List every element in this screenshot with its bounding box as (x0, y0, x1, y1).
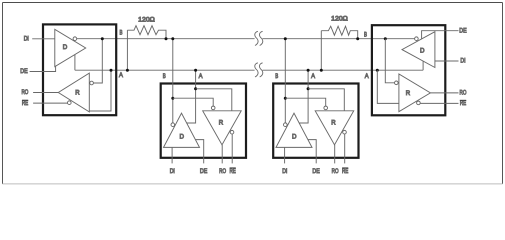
svg-text:DI: DI (460, 58, 465, 65)
wire: RE enable to U1 receiver (33, 102, 67, 104)
wire: bus line B (top), right segment (263, 38, 415, 40)
junction on line B at U3 (284, 37, 287, 40)
wire: RO pin of U2 (221, 145, 223, 164)
junction RT2 on line A (320, 69, 323, 72)
pin label RE with overline (U3) (342, 168, 348, 175)
svg-text:R: R (331, 120, 336, 127)
wire: DI pin of U3 (284, 147, 286, 163)
resistor RT1 120 ohm (left termination) (127, 26, 166, 70)
svg-text:A: A (311, 73, 316, 80)
cable break marks on line B (255, 31, 263, 45)
svg-text:B: B (364, 32, 367, 39)
wire: DE pin of U2 (195, 140, 203, 164)
transceiver U2 box (bottom middle-left) (161, 84, 246, 158)
inverting output bubble of driver U2 (171, 123, 175, 127)
wire: A-net branch to U3 receiver input (308, 89, 344, 111)
driver D (U3) (276, 113, 312, 147)
inverting output bubble of driver U4 (415, 37, 419, 41)
svg-text:DI: DI (170, 168, 175, 175)
svg-text:DI: DI (282, 168, 287, 175)
wire: U4 receiver B input from line B (385, 39, 394, 83)
receiver R (U4) (399, 74, 431, 112)
junction on line A inside U4 (376, 69, 379, 72)
transceiver U1 box (left) (43, 24, 116, 115)
svg-text:120Ω: 120Ω (331, 16, 348, 23)
junction on line B at U2 (171, 37, 174, 40)
junction A-net inside U2 (194, 87, 197, 90)
wire: line A drop into U3 (299, 70, 308, 123)
inverting output bubble of driver U1 (73, 37, 77, 41)
junction RT1 on line B (165, 37, 168, 40)
wire: U4 receiver A input from line A (377, 70, 399, 103)
svg-text:DE: DE (20, 68, 27, 75)
svg-text:R: R (219, 120, 224, 127)
wire: U1 driver A output down to line A (74, 55, 76, 71)
wire: DI input to U4 driver (435, 60, 459, 62)
driver D (U2) (164, 113, 200, 147)
svg-text:DE: DE (459, 27, 466, 34)
svg-text:D: D (420, 48, 425, 55)
wire: U4 driver A output down to line A (422, 61, 424, 70)
svg-text:B: B (275, 73, 278, 80)
wire: DE enable to U1 driver (30, 66, 56, 71)
svg-text:DI: DI (24, 36, 29, 43)
wire: RO output from U1 receiver (33, 92, 58, 94)
transceiver U3 box (bottom middle-right) (273, 84, 358, 158)
resistor RT2 120 ohm (right termination) (321, 26, 357, 70)
receiver R (U2) (203, 111, 242, 145)
border frame (3, 3, 503, 184)
wire: DE pin of U3 (308, 140, 316, 164)
wire: line A drop into U2 (187, 70, 196, 123)
wire: DE enable to U4 driver (422, 31, 459, 39)
junction on line B at U1 (101, 37, 104, 40)
svg-text:DE: DE (200, 168, 207, 175)
pin label RE with overline (U2) (229, 168, 235, 175)
svg-text:RE: RE (22, 100, 28, 107)
wire: DI input to U1 driver (32, 38, 55, 40)
wire: RE pin of U2 (231, 134, 233, 163)
wire: U1 receiver B input up to line B (93, 39, 102, 83)
B input bubble of receiver U3 (324, 106, 328, 110)
wire: bus line B (top), left segment (77, 38, 255, 40)
wire: line B drop to U2 driver bubble (172, 39, 174, 123)
svg-text:A: A (119, 72, 124, 79)
wire: B-net branch to U3 receiver bubble input (285, 98, 325, 106)
junction A-net inside U3 (307, 87, 310, 90)
svg-text:RO: RO (332, 168, 339, 175)
wire: line B drop to U3 driver bubble (284, 39, 286, 123)
junction B-net inside U3 (284, 97, 287, 100)
wire: RE enable to U4 receiver (420, 102, 458, 104)
svg-text:RE: RE (229, 168, 235, 175)
svg-text:DE: DE (312, 168, 319, 175)
driver D (U1) (55, 29, 86, 66)
wire: U1 receiver A input up to line A (89, 70, 111, 111)
wire: RE pin of U3 (344, 134, 346, 163)
wire: bus line A (bottom), right segment (263, 69, 424, 71)
RE enable bubble of receiver U2 (230, 130, 234, 134)
junction RT1 on line A (126, 69, 129, 72)
junction B-net inside U2 (171, 97, 174, 100)
svg-text:R: R (406, 90, 411, 97)
B input bubble of receiver U1 (90, 81, 94, 85)
wire: DI pin of U2 (171, 147, 173, 163)
B input bubble of receiver U4 (395, 81, 399, 85)
inverting output bubble of driver U3 (284, 123, 288, 127)
svg-text:RO: RO (219, 168, 226, 175)
svg-text:RO: RO (460, 90, 467, 97)
junction on line B inside U4 (384, 37, 387, 40)
receiver R (U3) (315, 111, 354, 145)
svg-text:R: R (75, 90, 80, 97)
wire: RO pin of U3 (334, 145, 336, 164)
svg-text:D: D (63, 44, 68, 51)
svg-text:D: D (292, 134, 297, 141)
svg-text:RE: RE (460, 100, 466, 107)
junction on line A at U3 (307, 69, 310, 72)
svg-text:120Ω: 120Ω (138, 16, 155, 23)
wire: A-net branch to U2 receiver input (196, 89, 232, 111)
svg-text:B: B (163, 73, 166, 80)
transceiver U4 box (right) (372, 25, 445, 115)
receiver R (U1) (58, 73, 89, 112)
wire: B-net branch to U2 receiver bubble input (173, 98, 213, 106)
svg-text:A: A (199, 73, 204, 80)
svg-text:A: A (365, 73, 370, 80)
pin label RE with overline (U4) (460, 100, 466, 107)
junction on line A at U1 (110, 69, 113, 72)
svg-text:RE: RE (342, 168, 348, 175)
wire: bus line A (bottom), left segment (75, 69, 255, 71)
cable break marks on line A (255, 63, 263, 77)
wire: RO output from U4 receiver (430, 92, 458, 94)
junction RT2 on line B (356, 37, 359, 40)
svg-text:B: B (120, 29, 123, 36)
svg-text:D: D (179, 134, 184, 141)
RE enable bubble of receiver U3 (343, 130, 347, 134)
driver D (U4) (402, 32, 435, 68)
junction on line A at U2 (194, 69, 197, 72)
svg-text:RO: RO (21, 89, 28, 96)
RE enable bubble of receiver U1 (68, 101, 72, 105)
pin label RE with overline (U1) (22, 100, 28, 107)
B input bubble of receiver U2 (211, 106, 215, 110)
RE enable bubble of receiver U4 (417, 101, 421, 105)
